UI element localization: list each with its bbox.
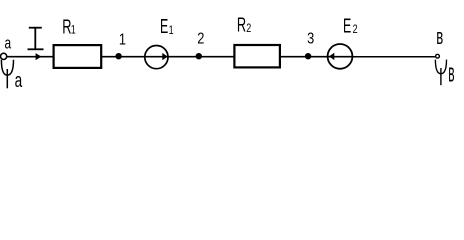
EMF source E2 <box>328 44 353 69</box>
node 2 <box>196 53 202 59</box>
svg-text:R: R <box>62 16 71 39</box>
svg-text:2: 2 <box>353 23 358 37</box>
svg-text:2: 2 <box>246 22 251 36</box>
current direction arrow <box>36 53 42 60</box>
svg-text:2: 2 <box>197 30 204 48</box>
svg-text:1: 1 <box>71 23 76 37</box>
terminal v <box>436 54 440 58</box>
node 3 <box>305 53 311 59</box>
label E1 <box>160 15 174 38</box>
wire E2 to terminal v <box>352 56 436 58</box>
wire a to R1 <box>7 56 54 58</box>
label R2 <box>237 13 251 36</box>
resistor R1 <box>54 45 102 68</box>
wire R2 to E2 <box>280 56 328 58</box>
wire E1 to R2 <box>168 56 234 58</box>
svg-text:E: E <box>343 14 351 37</box>
label E2 <box>343 14 358 37</box>
svg-text:E: E <box>160 15 168 38</box>
label R1 <box>62 16 76 39</box>
node 1 <box>115 53 121 59</box>
svg-text:а: а <box>15 69 23 91</box>
svg-text:1: 1 <box>119 31 126 49</box>
svg-text:1: 1 <box>169 24 174 38</box>
current label I <box>28 28 44 50</box>
potential label phi_v <box>435 58 454 88</box>
svg-text:а: а <box>5 35 12 54</box>
svg-text:R: R <box>237 13 246 36</box>
wire R1 to E1 <box>102 56 146 58</box>
svg-text:в: в <box>436 24 443 48</box>
svg-text:в: в <box>448 58 454 88</box>
potential label phi_a <box>1 60 22 92</box>
terminal a <box>1 53 7 59</box>
svg-text:3: 3 <box>307 30 314 48</box>
resistor R2 <box>234 45 280 67</box>
EMF source E1 <box>145 46 168 69</box>
